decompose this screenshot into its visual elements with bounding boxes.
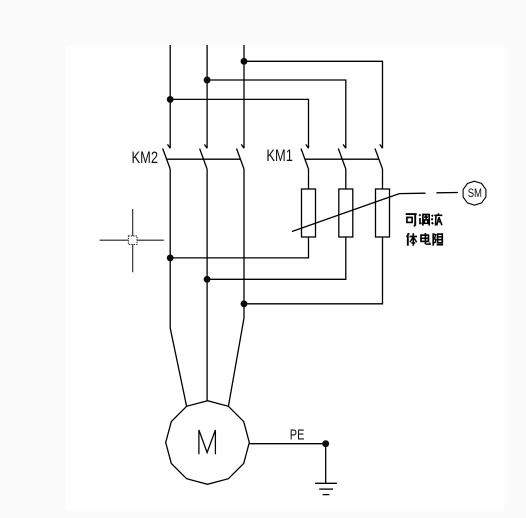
leader dash segment 2: [436, 192, 458, 194]
ground symbol: [315, 483, 337, 494]
contactor KM1 pole 2: [338, 144, 346, 169]
node PE junction: [322, 440, 329, 447]
node L3 branch junction: [241, 58, 248, 65]
node R2 return junction: [204, 276, 211, 283]
wire L3 branch to KM1 pole 3: [244, 61, 383, 148]
label glyph 液: [431, 213, 442, 225]
wire R1 bottom return to L1: [170, 237, 308, 258]
svg-text:KM1: KM1: [266, 146, 293, 165]
wire KM1 pole 2 to resistor R2: [345, 169, 347, 189]
leader dash segment 1: [399, 192, 426, 194]
wire KM2 pole 2 to motor: [206, 169, 208, 401]
wire KM2 pole 1 to motor: [170, 169, 186, 406]
node R3 return junction: [241, 300, 248, 307]
node L1 branch junction: [167, 96, 174, 103]
contactor KM2 pole 3: [237, 144, 245, 169]
svg-text:SM: SM: [468, 186, 482, 200]
SM sensor circle: [463, 181, 486, 205]
contactor KM2 pole 1: [163, 144, 171, 169]
resistor R1: [302, 189, 316, 237]
motor M1 circle: [166, 401, 250, 485]
crosshair cursor: [100, 209, 164, 272]
wire L2 branch to KM1 pole 2: [207, 80, 346, 148]
svg-text:PE: PE: [290, 428, 305, 444]
leader line to liquid resistor annotation: [292, 194, 399, 232]
node R1 return junction: [167, 254, 174, 261]
label glyph 体: [407, 233, 417, 246]
wire KM1 pole 1 to resistor R1: [308, 169, 310, 189]
wire KM1 pole 3 to resistor R3: [382, 169, 384, 189]
wire L2 supply vertical: [206, 45, 208, 148]
label 可调液体电阻 line1 可: [406, 213, 443, 245]
label glyph 阻: [433, 233, 443, 245]
contactor KM1 pole 3: [375, 144, 383, 169]
contactor KM2 pole 2: [200, 144, 208, 169]
wire PE drop: [325, 444, 327, 484]
svg-text:KM2: KM2: [132, 148, 159, 167]
wire motor to PE earth: [249, 443, 325, 445]
wire L1 supply vertical: [169, 45, 171, 148]
wire KM2 pole 3 to motor: [228, 169, 244, 406]
wire R2 bottom return to L2: [207, 237, 346, 279]
node L2 branch junction: [204, 77, 211, 84]
wire L1 branch to KM1 pole 1: [170, 99, 308, 148]
wire L3 supply vertical: [243, 45, 245, 148]
resistor R3: [376, 189, 390, 237]
drawing canvas background: [66, 46, 505, 511]
resistor R2: [339, 189, 353, 237]
KM1 linkage bar: [305, 158, 379, 160]
motor letter M: [199, 430, 216, 454]
label glyph 调: [419, 214, 429, 225]
contactor KM1 pole 1: [301, 144, 309, 169]
wire R3 bottom return to L3: [244, 237, 383, 304]
label glyph 电: [421, 233, 430, 244]
KM2 linkage bar: [167, 158, 241, 160]
